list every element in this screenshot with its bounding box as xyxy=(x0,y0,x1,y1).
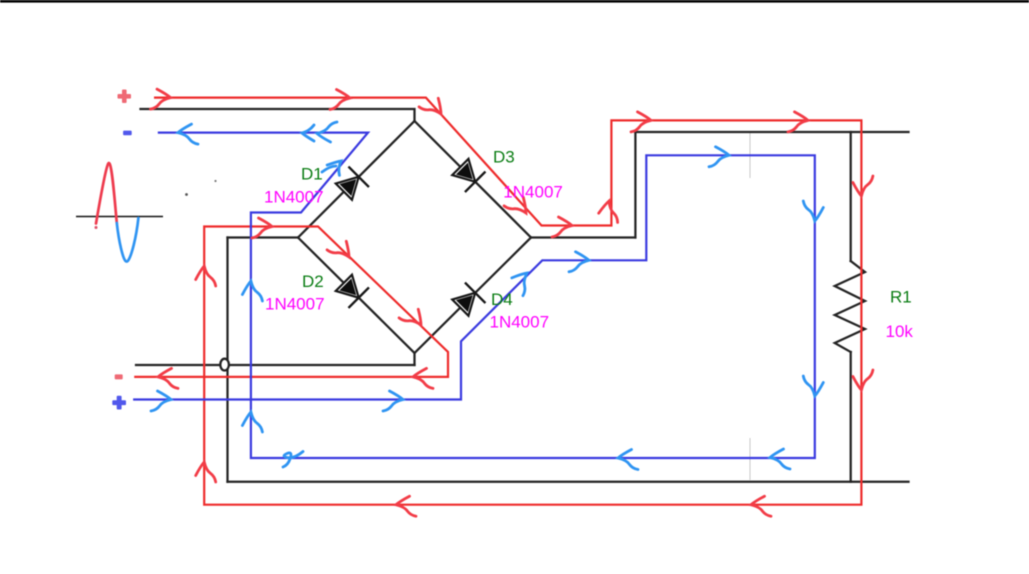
diode D4 xyxy=(450,283,485,318)
wire hop junction on bottom AC lead xyxy=(220,359,229,371)
diode D1 xyxy=(334,167,369,202)
diode D3 xyxy=(450,157,485,192)
blue arrow b2 (double chevron) xyxy=(302,125,314,141)
red arrow a8 xyxy=(788,112,808,132)
diode D4 branch (bridge bottom-right side) xyxy=(415,238,532,354)
AC source sine symbol: axis xyxy=(76,216,163,218)
top window border bar xyxy=(0,0,1029,3)
red arrow a5 xyxy=(552,217,572,237)
red current path (positive half-cycle) xyxy=(134,98,861,505)
wire: left vertical (negative output) xyxy=(226,238,228,482)
wire: bottom AC lead to bridge bottom xyxy=(136,364,415,366)
diode D1 branch (bridge left-top side) xyxy=(298,121,415,238)
red arrow a13 xyxy=(196,462,216,482)
red arrow a11 xyxy=(751,496,771,516)
wire: R1 bottom lead xyxy=(850,352,852,482)
AC source sine: positive half-cycle xyxy=(96,163,117,223)
stray red dot xyxy=(95,226,98,229)
blue arrow b7 xyxy=(618,450,638,470)
blue arrow b10 xyxy=(803,376,823,396)
red arrow a19 xyxy=(158,368,178,388)
resistor R1 xyxy=(835,261,865,352)
red arrow a9 xyxy=(853,176,873,196)
svg-text:10k: 10k xyxy=(886,322,914,341)
AC source sine: negative half-cycle xyxy=(117,218,139,262)
blue arrow b8 xyxy=(770,449,790,469)
blue arrow b11 xyxy=(709,147,729,167)
faint guide line lower xyxy=(749,438,751,480)
red arrow a3 xyxy=(419,93,447,121)
blue arrow b5 xyxy=(242,412,262,432)
svg-text:1N4007: 1N4007 xyxy=(503,182,563,201)
blue arrow b13 xyxy=(508,268,536,296)
stray speck 2 xyxy=(214,180,216,182)
wire: bridge bottom stub xyxy=(413,353,415,365)
blue arrow b6 (squiggle) xyxy=(283,452,303,468)
red arrow a14 xyxy=(196,266,216,286)
terminal - (bottom, red) xyxy=(115,374,123,379)
diode D2 xyxy=(334,273,369,308)
red arrow a12 xyxy=(396,496,416,516)
svg-text:D4: D4 xyxy=(491,290,513,309)
stray speck 1 xyxy=(185,193,188,196)
wire: right vertical (positive output) xyxy=(634,132,636,238)
red arrow a17 xyxy=(399,304,427,332)
red arrow a2 xyxy=(330,90,350,110)
diode D2 branch (bridge left-bottom side) xyxy=(298,238,415,354)
red arrow a15 xyxy=(252,218,272,238)
wire: top AC lead to bridge top xyxy=(141,109,415,121)
faint guide line upper xyxy=(749,132,751,178)
blue arrow b9 xyxy=(803,201,823,221)
svg-text:R1: R1 xyxy=(890,287,912,306)
red arrow a16 xyxy=(327,236,355,264)
wire: bridge right vertex to right vertical xyxy=(531,236,635,238)
blue arrow b15 xyxy=(151,391,171,411)
blue arrow b3 xyxy=(327,156,347,175)
blue arrow b14 xyxy=(383,391,403,411)
svg-text:D2: D2 xyxy=(302,272,324,291)
red arrow a18 xyxy=(413,368,433,388)
blue arrow b12 xyxy=(569,252,589,272)
wire: bottom return bus xyxy=(228,481,909,483)
svg-text:1N4007: 1N4007 xyxy=(490,313,550,332)
svg-text:D3: D3 xyxy=(493,148,515,167)
terminal - (top, blue) xyxy=(123,131,132,136)
red arrow a10 xyxy=(853,370,873,390)
terminal + (top, red) xyxy=(118,90,132,104)
blue arrow b4 xyxy=(242,281,262,301)
red arrow a1 xyxy=(151,89,171,109)
wire: bridge left vertex to left vertical xyxy=(228,236,299,238)
wire: top output bus xyxy=(635,131,908,133)
svg-text:1N4007: 1N4007 xyxy=(264,188,324,207)
diode D3 branch (bridge top-right side) xyxy=(415,121,532,238)
red arrow a7 xyxy=(631,112,651,132)
blue current path (negative half-cycle) xyxy=(133,133,815,458)
terminal + (bottom, blue) xyxy=(112,396,126,410)
blue arrow b1 xyxy=(178,124,198,144)
red arrow a4 xyxy=(504,192,532,220)
wire: R1 top lead xyxy=(850,132,852,261)
svg-text:D1: D1 xyxy=(301,165,323,184)
red arrow a6 xyxy=(598,200,621,223)
svg-text:1N4007: 1N4007 xyxy=(265,294,325,313)
